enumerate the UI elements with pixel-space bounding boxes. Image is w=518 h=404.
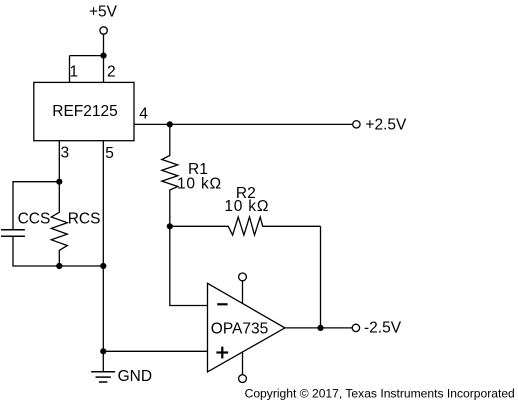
wire +5V circle to junction <box>103 34 105 55</box>
wire pin3 vertical <box>58 141 60 182</box>
svg-text:CCS: CCS <box>18 211 51 228</box>
op-amp positive supply pin wire <box>242 281 244 304</box>
junction dot at +5V <box>100 53 106 59</box>
op-amp negative supply terminal circle <box>239 375 247 383</box>
wire op-amp output to -2.5V <box>285 327 352 329</box>
wire junction to pin1 horizontal <box>70 55 104 57</box>
svg-text:RCS: RCS <box>68 211 101 228</box>
junction dot pin4/R1 <box>167 121 173 127</box>
svg-text:10 kΩ: 10 kΩ <box>177 176 222 193</box>
ground symbol <box>91 372 115 382</box>
svg-text:-2.5V: -2.5V <box>364 319 402 336</box>
svg-text:2: 2 <box>107 63 116 80</box>
junction dot RCS bottom <box>56 263 62 269</box>
wire capacitor bottom to bottom rail <box>13 237 59 266</box>
svg-text:OPA735: OPA735 <box>211 321 268 338</box>
svg-text:+2.5V: +2.5V <box>365 117 407 134</box>
svg-text:+5V: +5V <box>89 3 118 20</box>
svg-text:4: 4 <box>139 106 148 123</box>
wire pin5 vertical <box>102 141 104 352</box>
junction dot bottom rail/pin5 <box>100 263 106 269</box>
capacitor CCS top plate <box>1 229 25 231</box>
node +5V terminal circle <box>100 27 107 34</box>
wire ground node down to ground symbol <box>102 351 104 371</box>
wire pin4 output to +2.5V <box>134 123 353 125</box>
wire ground node to op-amp plus input <box>103 350 207 352</box>
wire bottom rail to pin5 <box>59 265 103 267</box>
junction dot output node <box>317 325 323 331</box>
svg-text:10 kΩ: 10 kΩ <box>224 198 269 215</box>
resistor R1 <box>162 124 178 226</box>
junction dot pin3 <box>56 179 62 185</box>
junction dot R1/R2 <box>167 223 173 229</box>
resistor R2 <box>170 217 321 235</box>
op-amp negative supply pin wire <box>242 352 244 375</box>
wire R1 node down to inverting input <box>170 226 208 305</box>
wire pin1 vertical <box>69 56 71 83</box>
svg-text:5: 5 <box>105 145 114 162</box>
op-amp positive supply terminal circle <box>239 273 247 281</box>
IC REF2125 box <box>34 82 134 140</box>
resistor RCS <box>51 182 67 266</box>
svg-text:Copyright © 2017, Texas Instru: Copyright © 2017, Texas Instruments Inco… <box>245 386 515 400</box>
svg-text:3: 3 <box>61 144 70 161</box>
svg-text:1: 1 <box>70 63 79 80</box>
capacitor CCS bottom plate <box>1 235 25 237</box>
svg-text:REF2125: REF2125 <box>52 103 117 120</box>
node -2.5V terminal circle <box>352 324 359 331</box>
svg-text:GND: GND <box>118 368 152 385</box>
op-amp U1 triangle <box>208 283 285 372</box>
junction dot ground node <box>100 348 106 354</box>
op-amp plus input symbol <box>216 347 228 359</box>
wire pin3 node left to capacitor branch <box>13 182 59 230</box>
node +2.5V terminal circle <box>353 121 360 128</box>
wire pin2 vertical <box>103 56 105 83</box>
op-amp minus input symbol <box>217 303 227 305</box>
wire R2 right down to output node <box>320 226 322 328</box>
